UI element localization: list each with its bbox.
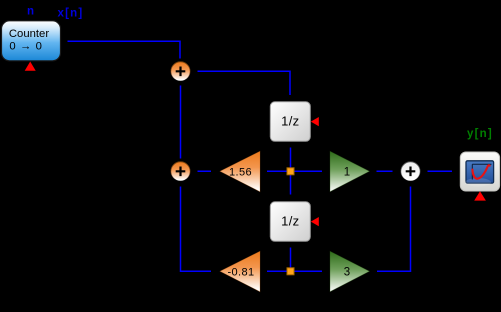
junction J2 [287, 268, 294, 275]
counter block [2, 21, 61, 61]
wire junction J2 to gain 3 [294, 270, 322, 272]
delay2 init input (red triangle) [311, 217, 319, 226]
wire gain 3 to sum3 [377, 187, 411, 272]
svg-text:y[n]: y[n] [467, 128, 493, 140]
wire junction J1 to gain 1 [294, 170, 322, 172]
wire gain -0.81 to sum2 [181, 187, 212, 272]
sum3 (+) white [401, 162, 420, 181]
svg-text:x[n]: x[n] [58, 8, 84, 20]
junction J1 [287, 168, 294, 175]
svg-text:n: n [27, 6, 34, 18]
svg-text:Counter: Counter [9, 28, 49, 40]
svg-text:1/z: 1/z [281, 214, 299, 229]
scope block [460, 152, 499, 191]
gain 3 (green, points right) [330, 251, 370, 292]
svg-text:0 → 0: 0 → 0 [9, 41, 42, 53]
wire delay2 to junction J2 [290, 248, 292, 269]
sum2 (+) [171, 162, 190, 181]
wire sum3 to scope [428, 170, 453, 172]
svg-text:1: 1 [344, 167, 350, 179]
sum1 (+) [171, 62, 190, 81]
scope event input (red triangle) [474, 191, 486, 200]
svg-text:1.56: 1.56 [229, 166, 252, 178]
wire sum2 to sum1 [180, 86, 182, 159]
wire delay1 to junction J1 [290, 148, 292, 169]
gain 1.56 (orange, points left) [220, 151, 260, 192]
delay1 init input (red triangle) [311, 117, 319, 126]
wire junction J1 to delay2 [290, 175, 292, 195]
gain 1 (green, points right) [330, 151, 370, 192]
wire junction J1 to gain 1.56 [267, 170, 287, 172]
delay block 1/z U2 [270, 202, 310, 242]
wire gain 1 to sum3 [377, 170, 393, 172]
svg-text:3: 3 [344, 267, 350, 279]
wire junction J2 to gain -0.81 [267, 270, 287, 272]
gain -0.81 (orange, points left) [220, 251, 260, 292]
delay block 1/z U1 [270, 102, 310, 142]
svg-text:1/z: 1/z [281, 114, 299, 129]
counter event input (red triangle) [25, 62, 36, 71]
svg-text:-0.81: -0.81 [227, 266, 254, 278]
wire sum1 to delay1 [198, 71, 291, 95]
wire gain 1.56 to sum2 [198, 170, 212, 172]
wire counter to sum1 [68, 41, 181, 58]
